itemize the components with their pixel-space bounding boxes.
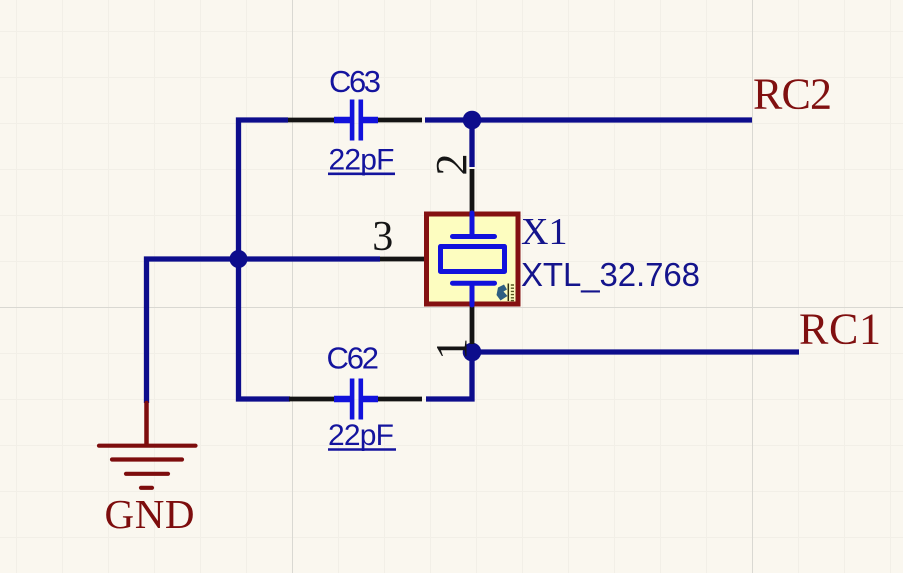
wire top node down to pin 2 [469, 120, 474, 167]
svg-text:XTL_32.768: XTL_32.768 [521, 256, 700, 293]
crystal X1 symbol [441, 213, 505, 305]
svg-text:22pF: 22pF [328, 419, 394, 452]
svg-text:C62: C62 [327, 341, 380, 376]
svg-text:1: 1 [427, 338, 476, 360]
pin 3 lead (black) [380, 257, 424, 262]
svg-text:GND: GND [105, 491, 195, 537]
underline 22pF (top) [328, 173, 395, 176]
capacitor C63 pin leads (black) [288, 118, 422, 123]
crystal X1 body box [427, 214, 519, 304]
underline 22pF (bottom) [328, 448, 396, 451]
crystal marker icon [497, 284, 515, 302]
major grid line vertical x=292 [292, 0, 294, 573]
wire left loop: GND stem up, across to junction [147, 259, 239, 403]
capacitor C62 pin leads (black) [289, 397, 422, 402]
svg-text:3: 3 [372, 214, 393, 260]
junction node at left [230, 250, 248, 268]
svg-text:C63: C63 [329, 64, 381, 99]
wire middle from junction to pin 3 [239, 256, 381, 261]
pin 1 lead (black) [470, 307, 475, 345]
wire bottom right corner up to RC1 node [426, 352, 472, 399]
capacitor C63 graphic [334, 100, 378, 141]
junction node bottom (pin 1 / RC1) [463, 343, 482, 362]
svg-text:22pF: 22pF [329, 144, 395, 177]
svg-text:RC1: RC1 [799, 305, 881, 354]
pin 2 lead (black) [470, 169, 475, 212]
svg-text:X1: X1 [521, 211, 567, 253]
major grid line vertical x=752 [752, 0, 754, 573]
wire RC1 net [472, 349, 799, 354]
wire top net to RC2 [425, 117, 752, 122]
major grid line horizontal y=307 [0, 307, 903, 309]
junction node top (pin 2 / RC2) [463, 111, 482, 130]
svg-text:2: 2 [427, 154, 476, 176]
svg-text:RC2: RC2 [753, 70, 832, 119]
capacitor C62 graphic [334, 379, 378, 420]
wire left vertical with top and bottom stubs [239, 120, 291, 399]
ground symbol [99, 403, 196, 488]
